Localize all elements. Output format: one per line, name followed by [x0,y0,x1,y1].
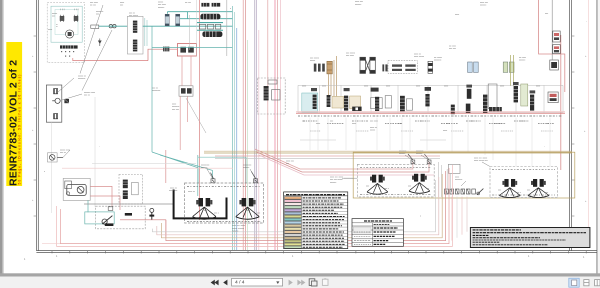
wire pale pink bus [296,110,565,112]
svg-text:4 / 4: 4 / 4 [235,280,245,286]
motor M1 [66,30,74,38]
long vertical wire bundle (center-left) [232,0,280,250]
sensor B1 [428,61,433,73]
svg-text:xxx xxxx: xxx xxxx [370,121,379,123]
fan blades [528,188,549,198]
sensor group highlighted box [302,93,318,112]
connector H-block P8 [352,107,361,111]
relay block K5 [548,92,558,103]
wire teal bus [143,12,233,27]
wire red L [539,0,565,170]
svg-text:xxxx xx: xxxx xx [188,191,196,193]
disconnect switch S2 [102,219,107,224]
table header [284,192,348,196]
wire cyan link [197,155,199,196]
faint page margin line (pink) [587,0,589,244]
fan motor M3 [239,198,255,206]
yellow banner [6,42,22,186]
wire pale green riser [247,40,249,250]
capacitor C2 [74,15,78,22]
breaker CB1 [91,25,116,29]
junction box tan [332,96,344,108]
capacitor C1 [60,15,64,22]
wire pale cross links [62,163,233,168]
fan blades [367,183,388,194]
connector cap2 [425,87,431,91]
svg-text:xxxxxx: xxxxxx [355,4,362,6]
prev-page button [223,280,227,286]
capacitor C4 (cylinder) [176,14,180,26]
12V converter box U3 [46,85,61,122]
module frame edge [226,0,228,56]
connector pin strip P9 [375,97,379,112]
connector stack P2 [200,14,220,20]
connector pin strip P15 [514,86,518,102]
key switch S1 [48,153,64,162]
svg-text:xxx xxxx: xxx xxxx [494,123,503,125]
svg-text:xxx xxxxx: xxx xxxxx [129,15,139,17]
svg-text:xxx xx: xxx xx [60,152,67,154]
wire olive riser [510,55,513,86]
callout line to 12V labels [80,5,103,74]
connector pin strip P10 [400,96,405,112]
connector pin strip P12 [451,105,455,115]
junction box tan2 [350,96,361,109]
wire pale pink long [42,243,60,245]
small pin cluster [314,64,325,72]
continuous page [584,280,589,286]
module box green [521,84,528,106]
capacitor C3 (cylinder) [165,14,169,26]
wire red bus [296,112,565,114]
pin dots row [61,51,74,57]
svg-text:xxxxxx: xxxxxx [201,167,208,169]
first-page button [211,280,219,286]
connector pin strip P11 [425,94,429,106]
callout diagonal lines to fan connector labels [58,78,490,186]
right window edge [596,0,598,276]
wire tan drop [329,56,337,100]
clipboard icon (disabled) [322,279,328,286]
svg-text:xxxxxxxx: xxxxxxxx [169,190,178,192]
battery box U1 (dashed) [47,3,148,63]
svg-text:xxx xxx: xxx xxx [172,109,180,111]
wire teal drop pair [145,18,147,46]
relay K4 [553,45,560,54]
wire red drop [180,96,187,150]
callout line [342,177,357,179]
svg-text:xxxxxxxx: xxxxxxxx [152,90,161,92]
condenser outer box (tan) [353,152,575,198]
connector pin strip upper [133,21,137,33]
wire red jumper [73,58,148,61]
wire bus stubs [300,139,446,141]
wire red bottom link [120,220,166,237]
swatch rows [285,197,302,249]
terminal block T2 [64,99,69,103]
wire red riser [267,0,269,250]
svg-text:xxxxxx: xxxxxx [519,60,526,62]
label text band [298,115,562,117]
label row y131 [310,130,553,132]
inline connector glyph [163,47,169,52]
leader line [186,98,206,133]
fan motor M4 [370,175,385,183]
last-page button (disabled) [297,280,305,286]
svg-text:xxxxxx: xxxxxx [330,182,337,184]
svg-text:xxxxxxx: xxxxxxx [434,60,442,62]
wire teal main feed [99,25,128,27]
single page (active) [569,278,579,287]
teal sub box [85,212,114,224]
connector cap [371,88,379,92]
fan motor M5 [412,174,427,182]
label row top [187,185,261,187]
wire red drop from F1 [182,56,191,86]
fuse box F1 (red) [177,44,196,56]
wire drop lines to lower bus [310,118,550,166]
module box3 [406,99,412,110]
wire loop 2 [60,168,449,244]
breaker tap B3 [251,172,257,183]
wire grey risers right [439,162,451,197]
master switch box (dashed) [85,206,154,229]
line samples [353,227,371,233]
label row bottom [187,220,261,222]
fan motor M7 [531,179,546,187]
svg-text:xx xxx: xx xxx [90,5,97,7]
svg-text:xxx xxx: xxx xxx [449,48,457,50]
junction connector box J3 [119,174,143,204]
connector block P4 [550,60,559,70]
toolbar background [0,277,600,288]
svg-text:xxxx xxxxx xxx: xxxx xxxxx xxx [474,160,489,162]
connector pair blue [468,62,479,72]
resolver X1 [360,57,375,73]
label row [360,166,431,168]
bottom page edge bar [0,273,600,276]
wire purple riser [256,0,258,250]
wire red riser [242,0,244,250]
ground stud G1 [150,208,154,212]
wire teal band2 [197,29,223,31]
ECM box U4 [258,78,286,114]
connector pin strip P5 [313,95,317,109]
connector pin strip lower [133,40,137,52]
snapshot icon [309,279,317,286]
junction module box [448,164,460,173]
border tick marks vertical edges [34,36,575,216]
svg-text:xxx xx: xxx xx [84,94,91,96]
breaker tap B5 [424,154,431,164]
heavy ground bar [174,190,227,219]
fan blades [193,207,216,219]
wire teal drop [88,26,232,212]
wire loop 4 [161,174,442,238]
fan blades [409,183,430,194]
page number field [232,278,283,286]
wire grey ground bus [84,203,174,205]
inner teal box [51,6,82,42]
connector pin strip P16 [530,95,534,111]
wire red riser [276,0,278,250]
connector low block [489,107,502,112]
wire dark drop [551,0,553,60]
wire teal riser B [233,12,235,250]
junction box J2 [179,86,193,96]
wire pale red bus [215,155,440,157]
module box4 [488,84,497,109]
svg-text:xxxxxx: xxxxxx [232,230,239,232]
wire loop 1 [57,165,453,246]
wire pink riser [279,0,281,223]
inner dashed box [357,164,434,197]
fan enclosure box [185,183,264,223]
fan blades [499,188,520,198]
connector stack P3 [202,31,222,37]
wire tan bus 1 [204,150,572,152]
terminal blocks TB1 [199,24,220,29]
connector strip J1 [60,45,78,48]
label rows below bus [303,121,554,124]
next-page button (disabled) [289,280,293,286]
margin index marks [24,20,587,261]
connector pin strip P14 (tall) [483,95,487,114]
fan motor M2 [196,198,212,206]
dashed box [490,167,558,198]
wire grey bus [215,157,440,159]
svg-text:xxxxxx: xxxxxx [416,153,423,155]
view mode icons bottom-right [569,278,600,287]
svg-text:50 Page, (Dimension: 50 Inches: 50 Page, (Dimension: 50 Inches x 36 Inch… [18,74,22,185]
wire light-blue riser [236,28,238,250]
wire purple riser [254,0,256,250]
fuse block F2 (tan) [327,61,332,74]
breaker tap B4 [408,154,415,164]
facing pages (clipped) [595,280,600,286]
svg-text:xx xxx: xx xxx [185,2,192,4]
fan blades [236,207,259,219]
resistor chain / sensor string [445,189,484,195]
faint guide verticals [50,122,52,213]
wire pink riser [258,30,260,250]
diode D1 [98,39,101,47]
wire loop 3 [166,171,446,241]
fan motor M6 [502,179,517,187]
wire loop 6 [152,180,435,232]
svg-text:xxxxxxx: xxxxxxx [455,179,463,181]
connector cap row extras [311,82,535,93]
border tick marks [52,251,586,254]
wire grey stub [189,15,191,50]
module box [371,98,383,109]
legend text lines [303,198,345,247]
wire teal riser A [231,6,233,250]
connector pair green [503,62,514,72]
connector pin strip P13 [466,89,472,113]
connector pin strip P7 [344,96,348,111]
svg-text:xxxxxxx: xxxxxxx [78,78,86,80]
wire pink riser [274,0,276,250]
control box U2 [127,16,147,54]
wire red bend to fan feeds [255,149,413,169]
relay K2 pins [392,64,416,71]
connector pin strip P6 [327,95,331,107]
wire red riser x199 [198,0,200,220]
breaker tap B2 [211,173,216,183]
connector stack header P1 [201,3,220,7]
wire tan bus 2 [204,152,572,154]
wire loop 5 [157,177,439,235]
relay module dashed box [388,61,417,74]
relay K3 [553,31,560,42]
pin tick rows [56,9,78,27]
svg-text:xxxx xxxxx: xxxx xxxxx [414,56,425,58]
svg-text:xxxxxx: xxxxxx [243,167,250,169]
svg-text:xxx xxxx: xxx xxxx [346,55,355,57]
left window edge [0,0,3,276]
wire red relay out [90,150,166,210]
wire red riser [244,0,246,250]
relay K1 [63,178,90,200]
callout line 2 [82,30,112,91]
svg-text:xxxxxx: xxxxxx [480,5,487,7]
wire drops from resistor chain [452,197,467,241]
small pin cluster 2 [382,64,387,71]
text lines [374,224,398,244]
wire red link [148,49,177,60]
row partition lines [298,85,563,112]
module box2 [385,96,391,108]
svg-text:xxxxxx: xxxxxx [158,7,165,9]
table grid [284,196,348,249]
label row [492,169,555,171]
wire teal band [197,22,223,24]
